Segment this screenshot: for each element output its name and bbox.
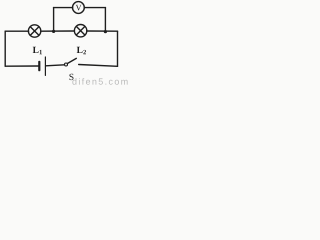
wire voltmeter branch left horizontal — [54, 7, 73, 9]
wire switch to bottom-right corner — [79, 65, 118, 67]
wire bottom-left horizontal — [5, 65, 38, 67]
wire voltmeter branch right vertical — [104, 8, 106, 32]
watermark text — [72, 78, 127, 85]
node junction A — [52, 30, 55, 33]
battery long plate (+) — [44, 57, 46, 75]
wire L2 to top-right corner — [87, 30, 118, 32]
wire top-left horizontal — [5, 30, 28, 32]
switch S lever — [67, 58, 76, 63]
label S — [69, 74, 73, 80]
wire voltmeter branch left vertical — [53, 8, 55, 32]
wire left rail — [4, 31, 6, 66]
voltmeter U1 circle — [73, 2, 85, 14]
wire between L1 and L2 — [41, 30, 75, 32]
label L1 — [33, 47, 42, 54]
lamp L2 — [74, 25, 86, 37]
wire battery to switch — [46, 65, 65, 66]
node junction B — [104, 30, 107, 33]
battery short plate (-) — [38, 62, 40, 70]
label L2 — [77, 47, 86, 54]
wire right rail — [117, 31, 119, 66]
voltmeter V letter — [76, 5, 82, 11]
wire voltmeter branch right horizontal — [84, 7, 105, 9]
switch S pivot circle — [65, 63, 68, 66]
lamp L1 — [28, 25, 40, 37]
